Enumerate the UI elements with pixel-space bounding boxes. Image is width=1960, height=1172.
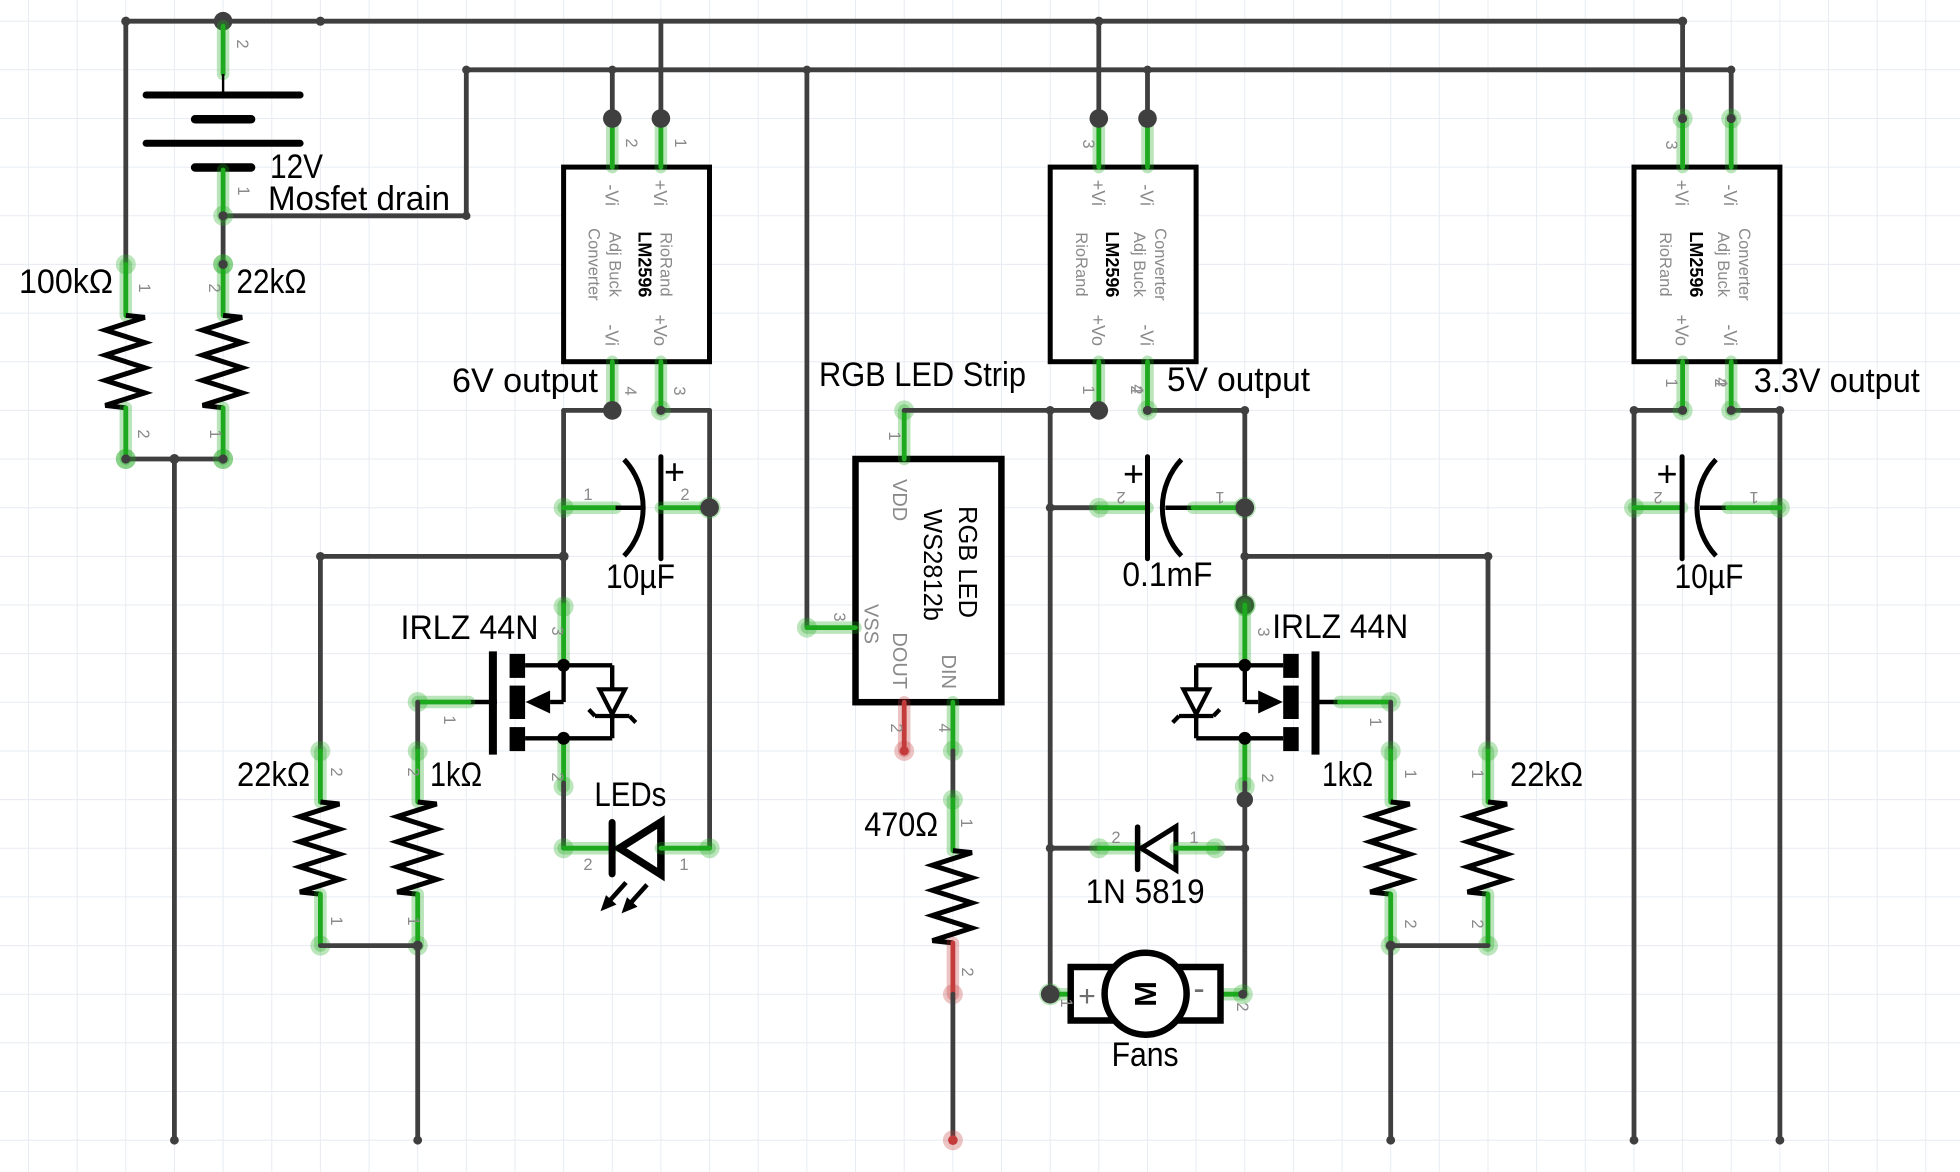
svg-text:1: 1: [1215, 488, 1224, 506]
pin 2 U1: [622, 138, 640, 147]
junction dot rail right corner: [1678, 17, 1687, 26]
junction dot U2 -Vi top: [1138, 109, 1157, 128]
svg-text:1: 1: [1662, 378, 1680, 387]
svg-text:IRLZ 44N: IRLZ 44N: [401, 609, 539, 647]
svg-text:10µF: 10µF: [606, 558, 675, 596]
svg-text:M: M: [1128, 981, 1163, 1007]
wire 100k top feed: [123, 21, 128, 264]
svg-text:2: 2: [404, 767, 422, 776]
svg-text:1: 1: [234, 186, 252, 195]
pin 2 battery: [233, 39, 251, 48]
svg-text:1: 1: [1057, 998, 1075, 1007]
label 100k ohm: [19, 263, 113, 301]
svg-text:3.3V output: 3.3V output: [1754, 362, 1921, 400]
svg-text:Adj Buck: Adj Buck: [1130, 232, 1148, 298]
node U2 -Vi bottom: [1138, 400, 1158, 420]
junction dot right bottom end: [1386, 1136, 1395, 1145]
label 22k ohm R3: [237, 756, 310, 794]
junction dot gate branch corner: [316, 552, 325, 561]
wire U2 -Vi drop: [1145, 70, 1150, 119]
wire R3 R4 bottom join: [320, 943, 417, 948]
junction dot U1 +Vi top: [652, 109, 671, 128]
pin 2 R3: [327, 767, 345, 776]
pin 3 U3: [1662, 140, 1680, 149]
pin 1 D2: [1189, 829, 1198, 847]
pin 2 C1: [680, 486, 689, 504]
junction dot U2 +Vo bottom: [1090, 401, 1109, 420]
wire Q1 gate to R4: [415, 702, 420, 751]
svg-text:LM2596: LM2596: [1102, 231, 1122, 297]
junction dot fan plus: [1039, 983, 1061, 1005]
wire U1 +Vi drop: [659, 21, 664, 118]
label 6V output: [452, 362, 599, 400]
pin 1 R2: [206, 429, 224, 438]
junction dot C2 pin1: [1234, 497, 1256, 519]
wire U3 +Vi drop: [1680, 21, 1685, 118]
svg-text:RioRand: RioRand: [1072, 232, 1090, 296]
wire 3.3V right drop: [1778, 410, 1783, 1140]
svg-text:2: 2: [680, 486, 689, 504]
svg-text:2: 2: [134, 429, 152, 438]
svg-text:Converter: Converter: [1735, 228, 1753, 301]
wire U3 -Vi out right: [1731, 408, 1780, 413]
svg-text:+: +: [1656, 453, 1677, 494]
LED D1 LEDs: [554, 822, 720, 913]
svg-text:Adj Buck: Adj Buck: [606, 232, 624, 298]
svg-text:1: 1: [1749, 488, 1758, 506]
junction dot minus rail U2: [1143, 66, 1151, 74]
wire +12V top rail: [126, 19, 1683, 24]
pin 1 D1: [679, 856, 688, 874]
resistor R4 1k&#937;: [397, 741, 437, 956]
pin 1 R1: [135, 283, 153, 292]
resistor R2 22k&#937;: [203, 254, 243, 469]
pin 4 U4: [935, 723, 953, 732]
svg-text:2: 2: [1116, 488, 1125, 506]
pin 2 Q2: [1258, 773, 1276, 782]
svg-text:1kΩ: 1kΩ: [430, 756, 482, 794]
label 1k ohm R7: [1322, 756, 1373, 794]
svg-text:-Vi: -Vi: [601, 324, 621, 346]
junction dot battery plus: [214, 12, 233, 31]
svg-text:2: 2: [233, 39, 251, 48]
wire fan left branch: [1050, 846, 1099, 851]
pin 2 and 4 U2: [1127, 384, 1146, 394]
wire battery minus to 22k: [221, 216, 226, 265]
junction dot cap branch: [559, 551, 569, 561]
wire U1 -Vi out left: [564, 408, 613, 413]
wire VDD to 5V node: [904, 408, 1099, 413]
svg-text:22kΩ: 22kΩ: [237, 756, 310, 794]
svg-text:1: 1: [135, 283, 153, 292]
wire fan right branch: [1216, 846, 1245, 851]
pin 2 D2: [1111, 829, 1120, 847]
svg-text:2: 2: [1653, 488, 1662, 506]
pin 1 R4: [404, 916, 422, 925]
wire minus drop to Q2: [1242, 410, 1247, 605]
wire R8 branch: [1245, 554, 1488, 559]
pin 1 R8: [1468, 769, 1486, 778]
junction dot 3.3V left end: [1630, 1136, 1639, 1145]
pin 3 U4: [830, 612, 848, 621]
RGB LED U4 WS2812b: [797, 400, 1002, 761]
svg-text:1: 1: [671, 138, 689, 147]
junction dot minus rail corner: [462, 66, 470, 74]
svg-text:22kΩ: 22kΩ: [237, 263, 307, 301]
pin 1 battery: [234, 186, 252, 195]
label 3.3V output: [1754, 362, 1921, 400]
svg-text:6V output: 6V output: [452, 362, 599, 400]
junction dot divider: [169, 454, 179, 464]
svg-text:-Vi: -Vi: [1720, 184, 1740, 206]
node R1 pin2: [116, 449, 136, 469]
wire Mosfet drain horizontal: [223, 213, 466, 218]
label 470 ohm: [864, 806, 938, 844]
wire U3 +Vo out left: [1634, 408, 1683, 413]
svg-text:-: -: [1193, 970, 1204, 1008]
svg-text:IRLZ 44N: IRLZ 44N: [1272, 608, 1408, 646]
svg-text:3: 3: [830, 612, 848, 621]
svg-text:1N 5819: 1N 5819: [1086, 873, 1205, 911]
svg-text:+Vi: +Vi: [1088, 180, 1108, 206]
node U3 +Vo bottom: [1673, 400, 1693, 420]
pin 1 U1: [671, 138, 689, 147]
svg-text:Converter: Converter: [1151, 228, 1169, 301]
junction dot drain riser corner: [462, 212, 470, 220]
capacitor C1 10&#181;F: [554, 451, 707, 559]
label 22k ohm: [237, 263, 307, 301]
wire 6V left drop: [561, 410, 566, 605]
wire R8 drop: [1486, 556, 1491, 751]
diode D2 1N 5819: [1089, 827, 1225, 870]
svg-text:+Vi: +Vi: [650, 180, 670, 206]
svg-text:4: 4: [935, 723, 953, 732]
junction dot C1 pin2 6V rail: [699, 497, 721, 519]
wire Q2 source down: [1242, 783, 1247, 994]
label Fans: [1112, 1036, 1179, 1074]
wire R4 to bottom: [415, 946, 420, 1141]
junction dot R4 bottom: [413, 941, 423, 951]
svg-text:-Vi: -Vi: [601, 184, 621, 206]
node open end red: [943, 1130, 963, 1150]
svg-text:RGB LED Strip: RGB LED Strip: [819, 356, 1026, 394]
pin 3 Q1: [548, 626, 566, 635]
wire divider to bottom rail: [172, 459, 177, 1140]
wire cap C2 branch: [1050, 505, 1099, 510]
svg-text:1: 1: [1468, 769, 1486, 778]
junction dot cap branch left: [1046, 503, 1055, 512]
pin 1 C1: [583, 486, 592, 504]
svg-text:LM2596: LM2596: [1686, 231, 1706, 297]
svg-text:Fans: Fans: [1112, 1036, 1179, 1074]
capacitor C2 0.1mF: [1089, 453, 1241, 559]
label IRLZ 44N Q2: [1272, 608, 1408, 646]
wire Q2 gate to R7: [1388, 702, 1393, 751]
pin 1 C3: [1749, 488, 1758, 506]
svg-text:2: 2: [1111, 829, 1120, 847]
pin 1 Q1: [440, 715, 458, 724]
node R2 pin1: [213, 449, 233, 469]
svg-text:22kΩ: 22kΩ: [1510, 756, 1583, 794]
svg-text:4: 4: [621, 386, 639, 395]
wire U2 +Vi drop: [1096, 21, 1101, 118]
svg-text:2: 2: [583, 856, 592, 874]
wire DIN to R5: [951, 751, 956, 800]
wire U1 -Vi drop: [610, 70, 615, 119]
junction dot rail joint: [316, 17, 325, 26]
pin 2 R2: [205, 283, 223, 292]
label 10uF C1: [606, 558, 675, 596]
svg-text:DOUT: DOUT: [888, 632, 910, 689]
junction dot left bottom end: [413, 1136, 422, 1145]
svg-text:0.1mF: 0.1mF: [1122, 556, 1212, 594]
label 10uF C3: [1675, 558, 1744, 596]
junction dot 5V fan drop: [1046, 406, 1055, 415]
node U3 -Vi bottom: [1721, 400, 1741, 420]
pin 2 and 4 U3: [1711, 377, 1730, 387]
junction dot fan right: [1240, 844, 1249, 853]
junction dot Q2 source wire: [1237, 791, 1253, 807]
svg-text:10µF: 10µF: [1675, 558, 1744, 596]
node U3 +Vi top: [1673, 109, 1693, 129]
label 1k ohm R4: [430, 756, 482, 794]
svg-text:3: 3: [548, 626, 566, 635]
junction dot R8 branch: [1240, 552, 1249, 561]
svg-text:1: 1: [679, 856, 688, 874]
pin 1 U3: [1662, 378, 1680, 387]
junction dot battery minus: [213, 206, 233, 226]
wire divider bottom: [126, 457, 223, 462]
motor M1 Fans: [1050, 953, 1243, 1035]
svg-text:1kΩ: 1kΩ: [1322, 756, 1373, 794]
resistor R7 1k&#937;: [1370, 741, 1410, 956]
svg-text:LM2596: LM2596: [635, 231, 655, 297]
svg-text:1: 1: [583, 486, 592, 504]
wire R7 to bottom: [1388, 946, 1393, 1141]
svg-text:RioRand: RioRand: [1656, 232, 1674, 296]
svg-text:2: 2: [327, 767, 345, 776]
label LEDs: [594, 776, 666, 814]
label IRLZ 44N Q1: [401, 609, 539, 647]
junction dot U2 +Vi top: [1090, 109, 1109, 128]
junction dot R8 corner: [1484, 552, 1493, 561]
svg-text:2: 2: [1258, 773, 1276, 782]
resistor R5 470&#937;: [932, 790, 972, 1005]
svg-text:4: 4: [1128, 384, 1146, 393]
buck converter U3 RioRand LM2596: [1634, 119, 1780, 411]
wire minus bus rail: [466, 67, 1731, 72]
battery BT1 12V: [146, 26, 300, 220]
pin 4 U1: [621, 386, 639, 395]
buck converter U2 RioRand LM2596: [1050, 119, 1196, 411]
svg-text:VDD: VDD: [888, 479, 910, 521]
capacitor C3 10&#181;F: [1624, 453, 1790, 559]
svg-text:2: 2: [1401, 919, 1419, 928]
pin 1 U4: [885, 431, 903, 440]
pin 1 R3: [327, 916, 345, 925]
pin 2 Q1: [548, 772, 566, 781]
pin 2 C2: [1116, 488, 1125, 506]
svg-text:DIN: DIN: [937, 655, 959, 689]
svg-text:+: +: [1123, 453, 1144, 494]
junction dot minus corner right: [1240, 406, 1249, 415]
pin 2 R5: [958, 967, 976, 976]
svg-text:RGB LED: RGB LED: [953, 506, 981, 618]
pin 3 Q2: [1254, 627, 1272, 636]
junction dot 3.3V left corner: [1630, 406, 1639, 415]
pin 1 U2: [1079, 385, 1097, 394]
junction dot 3.3V right end: [1776, 1136, 1785, 1145]
label 0.1mF: [1122, 556, 1212, 594]
svg-text:1: 1: [1366, 717, 1384, 726]
svg-text:+Vi: +Vi: [1672, 180, 1692, 206]
svg-text:-Vi: -Vi: [1137, 324, 1157, 346]
node U3 -Vi top: [1721, 109, 1741, 129]
pin 3 U1: [670, 386, 688, 395]
transistor Q2 IRLZ 44N: [1173, 597, 1401, 797]
pin 1 Q2: [1366, 717, 1384, 726]
junction dot Q2 drain node: [1234, 594, 1256, 616]
junction dot 22k top: [213, 254, 233, 274]
svg-text:1: 1: [1401, 769, 1419, 778]
svg-text:1: 1: [1189, 829, 1198, 847]
pin 1 M1: [1057, 998, 1075, 1007]
svg-text:2: 2: [548, 772, 566, 781]
junction dot 3.3V right corner: [1776, 406, 1785, 415]
svg-text:RioRand: RioRand: [657, 232, 675, 296]
wire Q1 source to LED: [561, 783, 566, 848]
svg-text:Converter: Converter: [585, 228, 603, 301]
transistor Q1 IRLZ 44N: [408, 597, 636, 797]
svg-text:+Vo: +Vo: [1088, 314, 1108, 346]
junction dot minus rail right corner: [1727, 66, 1735, 74]
svg-text:2: 2: [958, 967, 976, 976]
wire U1 +Vo out right: [661, 408, 710, 413]
buck converter U1 RioRand LM2596: [564, 119, 710, 411]
svg-text:+: +: [1078, 980, 1096, 1013]
label 1N 5819: [1086, 873, 1205, 911]
node fan minus: [1233, 984, 1253, 1004]
junction dot U1 -Vi bottom: [603, 401, 622, 420]
wire VSS drop: [805, 70, 810, 628]
resistor R1 100k&#937;: [105, 254, 145, 469]
svg-text:2: 2: [1233, 1002, 1251, 1011]
label Mosfet drain: [268, 180, 450, 218]
svg-text:-Vi: -Vi: [1137, 184, 1157, 206]
svg-text:1: 1: [327, 916, 345, 925]
svg-text:3: 3: [1662, 140, 1680, 149]
svg-text:1: 1: [885, 431, 903, 440]
svg-text:2: 2: [622, 138, 640, 147]
svg-text:WS2812b: WS2812b: [918, 509, 946, 621]
svg-text:1: 1: [404, 916, 422, 925]
svg-text:2: 2: [1468, 919, 1486, 928]
resistor R8 22k&#937;: [1468, 741, 1508, 956]
wire 3.3V left drop: [1632, 410, 1637, 1140]
svg-text:Mosfet drain: Mosfet drain: [268, 180, 450, 218]
label 12V: [270, 148, 323, 186]
wire R7 R8 bottom join: [1391, 943, 1488, 948]
pin 2 R8: [1468, 919, 1486, 928]
svg-text:1: 1: [206, 429, 224, 438]
wire gate branch horizontal: [320, 554, 563, 559]
resistor R3 22k&#937;: [300, 741, 340, 956]
pin 2 R4: [404, 767, 422, 776]
svg-text:-Vi: -Vi: [1720, 324, 1740, 346]
svg-text:2: 2: [205, 283, 223, 292]
svg-text:VSS: VSS: [860, 604, 882, 644]
svg-text:+Vo: +Vo: [650, 314, 670, 346]
wire gate branch drop to R3: [318, 556, 323, 751]
pin 2 C3: [1653, 488, 1662, 506]
junction dot fan left: [1046, 844, 1055, 853]
junction dot rail left end: [121, 17, 130, 26]
svg-text:LEDs: LEDs: [594, 776, 666, 814]
svg-text:1: 1: [957, 818, 975, 827]
junction dot R7 bottom: [1386, 941, 1396, 951]
svg-text:1: 1: [1079, 385, 1097, 394]
pin 1 C2: [1215, 488, 1224, 506]
pin 2 R7: [1401, 919, 1419, 928]
svg-text:2: 2: [887, 723, 905, 732]
pin 2 R1: [134, 429, 152, 438]
svg-text:5V output: 5V output: [1167, 361, 1311, 399]
wire R5 to bottom open end: [951, 994, 956, 1140]
pin 2 D1: [583, 856, 592, 874]
wire 5V fan drop: [1048, 410, 1053, 994]
wire U2 -Vi out right: [1148, 408, 1245, 413]
svg-text:3: 3: [1079, 139, 1097, 148]
pin 1 R7: [1401, 769, 1419, 778]
wire U3 -Vi drop: [1729, 70, 1734, 119]
wire Mosfet drain riser: [464, 70, 469, 216]
wire 6V right drop to LED: [707, 410, 712, 848]
svg-text:100kΩ: 100kΩ: [19, 263, 113, 301]
label RGB LED Strip: [819, 356, 1026, 394]
pin 1 R5: [957, 818, 975, 827]
junction dot minus rail VSS: [803, 66, 811, 74]
svg-text:+Vo: +Vo: [1672, 314, 1692, 346]
junction dot divider end: [170, 1136, 179, 1145]
svg-text:470Ω: 470Ω: [864, 806, 938, 844]
node U1 +Vo bottom: [651, 400, 671, 420]
pin 3 U2: [1079, 139, 1097, 148]
pin 2 M1: [1233, 1002, 1251, 1011]
label 5V output: [1167, 361, 1311, 399]
svg-text:4: 4: [1712, 377, 1730, 386]
svg-text:3: 3: [1254, 627, 1272, 636]
svg-text:Adj Buck: Adj Buck: [1714, 232, 1732, 298]
junction dot U1 -Vi top: [603, 109, 622, 128]
pin 2 U4: [887, 723, 905, 732]
junction dot U2 feed: [1094, 17, 1103, 26]
junction dot minus rail U1: [608, 66, 616, 74]
label 22k ohm R8: [1510, 756, 1583, 794]
svg-text:3: 3: [670, 386, 688, 395]
svg-text:1: 1: [440, 715, 458, 724]
